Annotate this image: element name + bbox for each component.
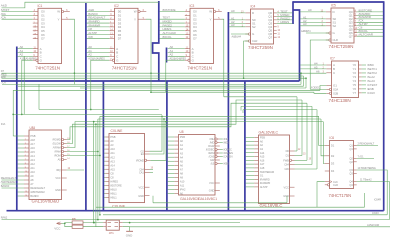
wire IC2 A&D bbox=[87, 11, 110, 13]
svg-text:W: W bbox=[57, 10, 60, 14]
wire IC2 Y out bbox=[146, 19, 151, 92]
svg-text:/WRITERAM: /WRITERAM bbox=[1, 180, 16, 184]
svg-text:HIRES: HIRES bbox=[110, 179, 118, 183]
svg-text:/IODEC: /IODEC bbox=[311, 86, 320, 90]
decoder IC7 74HC138N bbox=[326, 57, 361, 103]
svg-text:GND: GND bbox=[55, 188, 61, 192]
svg-text:PSB: PSB bbox=[180, 135, 185, 139]
wire IC5 A2 bbox=[300, 21, 326, 23]
svg-text:/IODEC: /IODEC bbox=[206, 148, 215, 152]
wire IC3 ALTCHAR bbox=[160, 34, 185, 36]
svg-text:Y: Y bbox=[210, 17, 212, 21]
svg-text:IC1: IC1 bbox=[38, 4, 43, 8]
wire IC4 Q1 MIXED bbox=[277, 15, 293, 17]
jumper JP1 bbox=[103, 220, 123, 235]
svg-text:GW: GW bbox=[210, 158, 215, 162]
PLD GAL16V8LC bbox=[254, 131, 294, 209]
wire IC4 Q2 PAGE2 bbox=[277, 19, 293, 21]
wire CXLINE inputs from bus bbox=[104, 136, 105, 138]
bus top horizontal bbox=[293, 1, 384, 3]
svg-text:D4: D4 bbox=[331, 169, 335, 173]
svg-text:74HCT251N: 74HCT251N bbox=[187, 66, 212, 71]
svg-text:/RAMEN: /RAMEN bbox=[223, 151, 233, 155]
svg-text:A3: A3 bbox=[231, 23, 235, 27]
svg-text:VCC: VCC bbox=[209, 181, 214, 185]
wire IC3 80STORE bbox=[160, 11, 185, 13]
wire IC1 C drop bbox=[23, 56, 25, 114]
svg-text:A11: A11 bbox=[30, 166, 35, 170]
wire zoneA 4 bbox=[13, 89, 320, 91]
wire IC5 Q5 C8 bbox=[357, 28, 383, 30]
svg-text:READ&HALT: READ&HALT bbox=[1, 176, 17, 180]
label IC7 Y2 /SETK2 bbox=[362, 72, 366, 74]
wire IC3 PAGE2 bbox=[160, 26, 185, 28]
svg-text:U8: U8 bbox=[180, 130, 184, 134]
wire U$4 IRQ bbox=[67, 169, 84, 171]
svg-text:PSB: PSB bbox=[110, 135, 115, 139]
PLD CXLINE GAL16V8 bbox=[105, 129, 150, 208]
svg-text:/WRITERAM: /WRITERAM bbox=[30, 190, 44, 194]
svg-text:IC7: IC7 bbox=[330, 57, 335, 61]
svg-text:HBL1: HBL1 bbox=[110, 192, 117, 196]
svg-text:/DLOW: /DLOW bbox=[52, 142, 61, 146]
wire IC7 G1 bbox=[320, 86, 326, 91]
wire bottom 3 R/W2 bbox=[2, 219, 390, 221]
svg-text:74HCT175N: 74HCT175N bbox=[329, 193, 352, 198]
svg-text:JP1: JP1 bbox=[109, 231, 114, 235]
svg-text:IC6: IC6 bbox=[329, 136, 334, 140]
svg-text:PSB: PSB bbox=[260, 136, 265, 140]
wire IC7 G2B bbox=[314, 92, 326, 93]
svg-text:A16: A16 bbox=[30, 146, 35, 150]
bus vertical x167 bbox=[166, 81, 168, 211]
svg-text:/ROM: /ROM bbox=[54, 154, 60, 158]
latch IC5 74HCT259N bbox=[326, 4, 357, 49]
wire bottom 5 bbox=[130, 226, 390, 228]
wire IC6 Q2 bbox=[357, 157, 374, 159]
svg-text:/MD: /MD bbox=[210, 141, 215, 145]
wire IC2 ALTZP bbox=[87, 34, 110, 36]
bus right vertical bbox=[383, 1, 385, 211]
svg-text:VCC: VCC bbox=[54, 227, 61, 231]
svg-text:S2: S2 bbox=[333, 24, 337, 28]
wire IC5 Q1 /RAMRD bbox=[357, 14, 383, 16]
wire GAL16V8LC inputs from bus bbox=[246, 137, 254, 139]
wire IC5 Q0 80STORE bbox=[357, 11, 383, 13]
svg-text:/PH2: /PH2 bbox=[180, 188, 186, 192]
wire riser 2 bbox=[67, 100, 302, 144]
wire U8 output labels bbox=[220, 138, 223, 140]
svg-text:/C64X: /C64X bbox=[372, 211, 379, 215]
svg-text:R/W: R/W bbox=[1, 75, 6, 79]
wire IC1 selects bbox=[18, 48, 33, 50]
svg-text:PSB: PSB bbox=[30, 134, 35, 138]
mux IC1 74HCT251N bbox=[33, 4, 70, 71]
svg-text:/CASEN: /CASEN bbox=[223, 155, 232, 159]
svg-text:A0: A0 bbox=[231, 9, 235, 13]
svg-text:/RAM: /RAM bbox=[54, 150, 60, 154]
wire U$4 /WRITERAM bbox=[2, 183, 25, 185]
wire IC5 Q2 /RAMWR bbox=[357, 18, 383, 20]
label IC7 Y4 /SLA3 bbox=[362, 80, 366, 82]
svg-text:/CAS: /CAS bbox=[209, 155, 215, 159]
wire bundle zoneB bbox=[224, 96, 297, 98]
wire IC2 /RAMRD bbox=[87, 22, 110, 24]
svg-text:A2: A2 bbox=[20, 53, 24, 57]
wire IC6 CLK bbox=[317, 182, 325, 208]
wire U$4 pin1 IOA bbox=[13, 135, 24, 137]
ground GND bbox=[126, 231, 133, 237]
wire IC2 BANK0 bbox=[87, 14, 110, 16]
svg-text:74HC138N: 74HC138N bbox=[329, 98, 351, 103]
wire zoneA 3 bbox=[80, 87, 306, 89]
wire zoneA 5 bbox=[151, 91, 314, 93]
svg-text:Y7: Y7 bbox=[353, 91, 357, 95]
wire IC3 HIRES bbox=[160, 30, 185, 32]
wire IC3 G select bbox=[166, 60, 185, 92]
wire IC3 selects bbox=[168, 48, 185, 50]
svg-text:READ&HALT: READ&HALT bbox=[30, 186, 45, 190]
svg-text:HBL1: HBL1 bbox=[110, 196, 117, 200]
mux IC3 74HCT251N bbox=[185, 4, 222, 71]
label IC7 Y6 /ENB bbox=[362, 88, 366, 90]
wire IC1 Y out bbox=[70, 19, 75, 84]
svg-text:74HCT259N: 74HCT259N bbox=[248, 45, 273, 50]
svg-text:BANK0: BANK0 bbox=[1, 184, 10, 188]
svg-text:A15: A15 bbox=[260, 155, 265, 159]
wire JP1 to GND bbox=[123, 227, 130, 232]
svg-text:Q7: Q7 bbox=[349, 34, 353, 38]
wire IC1 /CA bbox=[2, 18, 33, 20]
wire riser 1 bbox=[67, 103, 307, 139]
svg-text:80COL: 80COL bbox=[163, 35, 173, 39]
wire IODEC bbox=[310, 88, 326, 90]
svg-text:A17: A17 bbox=[30, 142, 35, 146]
svg-text:A13: A13 bbox=[30, 158, 35, 162]
svg-text:GND: GND bbox=[283, 194, 289, 198]
label IC7 Y0 /KBD bbox=[362, 64, 366, 66]
bus main horizontal bbox=[1, 80, 300, 82]
svg-text:A14: A14 bbox=[110, 163, 115, 167]
wire IC6 Q4 TBank2 bbox=[357, 182, 390, 220]
wire IC5 D A0 bbox=[300, 11, 326, 13]
svg-text:/C8: /C8 bbox=[88, 35, 93, 39]
svg-text:A10: A10 bbox=[30, 170, 35, 174]
svg-text:D1: D1 bbox=[331, 144, 335, 148]
wire IC2 /C8 bbox=[87, 37, 110, 39]
svg-text:ALTZP: ALTZP bbox=[260, 185, 268, 189]
wire drops gutter bbox=[93, 122, 95, 223]
wire IC5 Q4 ALTZP bbox=[357, 25, 383, 27]
svg-text:/MD0: /MD0 bbox=[223, 141, 230, 145]
svg-text:W: W bbox=[209, 10, 212, 14]
svg-text:G1: G1 bbox=[333, 84, 337, 88]
PLD U8 GAL16V8 bbox=[174, 130, 220, 201]
resistor R8 pair bbox=[72, 217, 83, 228]
svg-text:GAL16V8C1: GAL16V8C1 bbox=[198, 197, 217, 201]
svg-text:A11: A11 bbox=[180, 184, 185, 188]
svg-text:FWB: FWB bbox=[283, 158, 289, 162]
wire U$4 inputs from bus bbox=[18, 139, 24, 141]
wire zoneA 2 bbox=[18, 85, 304, 87]
svg-text:CLR: CLR bbox=[333, 38, 338, 42]
svg-text:/WRITERAM: /WRITERAM bbox=[260, 170, 274, 174]
svg-text:IC3: IC3 bbox=[190, 4, 195, 8]
wire IC4 G bbox=[231, 33, 249, 35]
wire IC1 SHIFT bbox=[2, 11, 33, 13]
svg-text:11 TBank2: 11 TBank2 bbox=[360, 178, 372, 182]
wire IC1 /DA bbox=[2, 14, 33, 16]
wire IC5 CLR bbox=[310, 40, 329, 89]
svg-text:A13: A13 bbox=[110, 159, 115, 163]
svg-text:A0: A0 bbox=[308, 8, 312, 12]
svg-text:A17: A17 bbox=[260, 162, 265, 166]
svg-text:A15&A14&RES: A15&A14&RES bbox=[170, 57, 187, 60]
svg-text:D7: D7 bbox=[41, 37, 45, 41]
wire IC4 Q0 TEST bbox=[277, 12, 293, 14]
wire above-bus 2 bbox=[96, 206, 365, 208]
wire above-bus 1 bbox=[153, 202, 287, 204]
svg-text:Y: Y bbox=[134, 17, 136, 21]
svg-text:A10: A10 bbox=[180, 180, 185, 184]
wire IC4 A1 bbox=[229, 19, 245, 21]
wire IOA vertical bbox=[12, 90, 14, 136]
svg-text:A2: A2 bbox=[170, 53, 174, 57]
svg-text:D3: D3 bbox=[331, 162, 335, 166]
svg-text:Y: Y bbox=[58, 17, 60, 21]
svg-text:A&B&H4: A&B&H4 bbox=[301, 30, 311, 33]
PLD U$4 GAL16V8D bbox=[24, 126, 70, 204]
wire IC2 READ&HALT bbox=[87, 18, 110, 20]
wire U$4 BANK0 bbox=[2, 187, 25, 189]
svg-text:GAL16V8C0: GAL16V8C0 bbox=[180, 197, 199, 201]
svg-text:/IODEC: /IODEC bbox=[223, 148, 232, 152]
wire verticals into GAL3 right pins bbox=[296, 97, 298, 151]
wire IC6 Q1 READ&HALT bbox=[357, 145, 378, 147]
wire into IC6 D pins bbox=[319, 116, 325, 145]
wire IC5 A1 bbox=[300, 18, 326, 20]
latch IC4 74HCT259N bbox=[245, 5, 276, 50]
label IC7 Y7 /C01X bbox=[362, 92, 366, 94]
svg-text:A14: A14 bbox=[260, 151, 265, 155]
svg-text:A16: A16 bbox=[260, 158, 265, 162]
bus left vertical x17 bbox=[16, 47, 18, 211]
bus bottom horizontal bbox=[7, 210, 384, 212]
wire U$4 out to drop 1 bbox=[67, 151, 98, 153]
wire bottom 4 bbox=[130, 222, 240, 224]
svg-text:/INH: /INH bbox=[223, 137, 228, 141]
svg-text:CLR: CLR bbox=[252, 39, 257, 43]
svg-text:A12: A12 bbox=[30, 162, 35, 166]
wire left RW long bbox=[2, 77, 307, 79]
label IC7 Y1 /SETK1 bbox=[362, 68, 366, 70]
wire IC6 Q3 SWINTERN bbox=[357, 170, 388, 215]
svg-text:80STORE: 80STORE bbox=[110, 183, 122, 187]
svg-text:R8: R8 bbox=[72, 217, 76, 221]
svg-text:A11: A11 bbox=[110, 151, 115, 155]
wire riser 3 bbox=[67, 122, 324, 148]
svg-text:GND: GND bbox=[138, 194, 144, 198]
svg-text:G2A: G2A bbox=[333, 88, 338, 92]
wire mid long line bbox=[13, 113, 162, 115]
svg-text:U$4: U$4 bbox=[30, 126, 36, 130]
svg-text:A15: A15 bbox=[30, 150, 35, 154]
label IC7 Y5 /CTEST bbox=[362, 84, 366, 86]
wire IC5 Q6 80COL bbox=[357, 32, 383, 34]
svg-text:HBL0: HBL0 bbox=[110, 187, 117, 191]
svg-text:/RAMRD: /RAMRD bbox=[260, 177, 270, 181]
svg-text:10 SWINTERN&: 10 SWINTERN& bbox=[358, 166, 377, 170]
svg-text:74HCT251N: 74HCT251N bbox=[112, 66, 137, 71]
wire IC7 A4 A5 bbox=[300, 64, 326, 66]
wire U$4 READ&HALT bbox=[2, 179, 25, 181]
wire IC2 C8 bbox=[87, 30, 110, 32]
svg-text:CXLINE: CXLINE bbox=[112, 204, 126, 208]
svg-text:A15: A15 bbox=[110, 167, 115, 171]
svg-text:A6: A6 bbox=[316, 69, 320, 73]
svg-text:RGW: RGW bbox=[208, 144, 215, 148]
wire CXLINE C64 CA1 bbox=[150, 169, 154, 171]
wire IC4 D A0 bbox=[229, 12, 245, 14]
wire resistor left join bbox=[65, 223, 72, 227]
svg-text:A3: A3 bbox=[303, 22, 307, 26]
svg-text:/CA: /CA bbox=[2, 80, 6, 84]
svg-text:IRQ: IRQ bbox=[56, 168, 60, 172]
svg-text:IC4: IC4 bbox=[251, 5, 256, 9]
svg-text:GW: GW bbox=[284, 167, 289, 171]
svg-text:IOA: IOA bbox=[1, 122, 6, 126]
svg-text:VCC: VCC bbox=[139, 185, 144, 189]
svg-text:/VRAM: /VRAM bbox=[53, 146, 61, 150]
svg-text:VCC: VCC bbox=[55, 176, 60, 180]
wire IC1 G select bbox=[22, 60, 33, 114]
svg-text:IC5: IC5 bbox=[331, 4, 336, 8]
bus vertical x228 bbox=[227, 12, 229, 211]
svg-text:D7: D7 bbox=[193, 37, 197, 41]
wire IC4 CLR bbox=[244, 41, 249, 78]
wire IC3 80COL bbox=[160, 37, 185, 39]
svg-text:CLR: CLR bbox=[333, 183, 338, 187]
wire U8 inputs from bus bbox=[168, 136, 175, 138]
svg-text:A2: A2 bbox=[88, 53, 92, 57]
wire IC3 Y out bbox=[222, 19, 224, 97]
svg-text:/C64R: /C64R bbox=[374, 198, 381, 202]
wire left D7 long bbox=[2, 72, 327, 74]
svg-text:/ROM2: /ROM2 bbox=[136, 158, 144, 162]
svg-text:GND: GND bbox=[209, 189, 215, 193]
wire IC3 MIXED bbox=[160, 22, 185, 24]
svg-text:7 /G1: 7 /G1 bbox=[358, 155, 365, 159]
svg-text:GND: GND bbox=[126, 233, 133, 237]
supply VCC bbox=[54, 222, 61, 231]
bus right top jog bbox=[293, 1, 300, 81]
label IC7 Y3 /SLA2 bbox=[362, 76, 366, 78]
wire GAL16V8LC right links bbox=[295, 150, 298, 152]
wire IC2 G select bbox=[91, 60, 110, 109]
wire IC4 Q3 HIRES bbox=[277, 22, 293, 24]
svg-text:/KBD: /KBD bbox=[223, 162, 229, 166]
wire bottom 2 bbox=[103, 214, 387, 216]
svg-text:R/W2: R/W2 bbox=[1, 215, 8, 219]
svg-text:A15&A14&RES: A15&A14&RES bbox=[88, 57, 105, 60]
bus vertical x245 bbox=[244, 81, 246, 211]
wire CXLINE up joins bbox=[150, 116, 163, 151]
wire VCC node bbox=[62, 222, 65, 224]
wire IC5 Q7 /ALTCHAR bbox=[357, 35, 383, 37]
bus stub A near IC3 bbox=[166, 48, 168, 63]
mux IC2 74HCT251N bbox=[109, 4, 146, 71]
svg-text:C64: C64 bbox=[284, 163, 289, 167]
svg-text:A14: A14 bbox=[30, 154, 35, 158]
svg-text:A12: A12 bbox=[110, 155, 115, 159]
svg-text:80STORE: 80STORE bbox=[163, 8, 176, 12]
svg-text:VCC: VCC bbox=[284, 185, 289, 189]
svg-text:74HCT251N: 74HCT251N bbox=[35, 66, 60, 71]
svg-text:GAL16V8D&O: GAL16V8D&O bbox=[32, 198, 60, 203]
svg-text:CXLINE: CXLINE bbox=[111, 129, 124, 133]
svg-text:/C01X: /C01X bbox=[367, 91, 375, 95]
svg-text:A18: A18 bbox=[30, 138, 35, 142]
wire IC2 /RAMWR bbox=[87, 26, 110, 28]
svg-text:/RAM: /RAM bbox=[208, 151, 214, 155]
wire mid horizontal 109 bbox=[39, 109, 159, 111]
svg-text:D2: D2 bbox=[331, 154, 335, 158]
wire vertical x39 drop bbox=[38, 84, 40, 109]
svg-text:GAL16V8LC: GAL16V8LC bbox=[259, 131, 279, 135]
wire IC5 Q3 /CX bbox=[357, 21, 383, 23]
wire IC4 A2 bbox=[229, 22, 245, 24]
vertical joins zoneA bbox=[300, 73, 302, 84]
svg-text:G2B: G2B bbox=[333, 91, 338, 95]
svg-text:A15&X14R: A15&X14R bbox=[367, 223, 379, 227]
wire IC2 selects bbox=[87, 48, 110, 50]
svg-text:CA1: CA1 bbox=[139, 171, 144, 175]
svg-text:/LE: /LE bbox=[211, 162, 215, 166]
svg-text:74HCT259N: 74HCT259N bbox=[329, 44, 354, 49]
wire resistor outputs bbox=[83, 222, 103, 224]
wire IC4 A3 bbox=[229, 26, 245, 28]
wire U$4 out to drop 2 bbox=[67, 155, 100, 157]
svg-text:/RAMWR: /RAMWR bbox=[260, 181, 271, 185]
bus vertical x159 bbox=[153, 1, 159, 81]
wire IC5 A3 bbox=[300, 25, 326, 27]
svg-text:HIRES: HIRES bbox=[280, 20, 289, 24]
svg-text:BANK0: BANK0 bbox=[30, 194, 39, 198]
wire A&D IC1 bbox=[2, 2, 159, 8]
wire IC5 G bbox=[306, 32, 329, 34]
svg-text:W: W bbox=[134, 10, 137, 14]
bus vertical x86 bbox=[85, 3, 87, 211]
svg-text:/INH: /INH bbox=[209, 137, 214, 141]
svg-text:A18: A18 bbox=[260, 166, 265, 170]
flipflop IC6 74HCT175N bbox=[325, 136, 357, 198]
wire left RES long bbox=[2, 75, 304, 77]
bus vertical x103 bbox=[102, 81, 104, 211]
svg-text:D7: D7 bbox=[118, 37, 122, 41]
svg-text:A&B&H4: A&B&H4 bbox=[232, 36, 242, 39]
svg-text:Q7: Q7 bbox=[268, 35, 272, 39]
wire IC3 TEXT bbox=[160, 18, 185, 20]
svg-text:A10: A10 bbox=[110, 147, 115, 151]
svg-text:2 READ&HALT: 2 READ&HALT bbox=[358, 142, 375, 146]
svg-text:/ALTCHAR: /ALTCHAR bbox=[359, 33, 374, 37]
svg-text:S2: S2 bbox=[252, 25, 256, 29]
wire zoneA 1 bbox=[2, 83, 301, 85]
svg-text:IC2: IC2 bbox=[114, 4, 119, 8]
svg-text:/ROMD: /ROMD bbox=[52, 138, 60, 142]
